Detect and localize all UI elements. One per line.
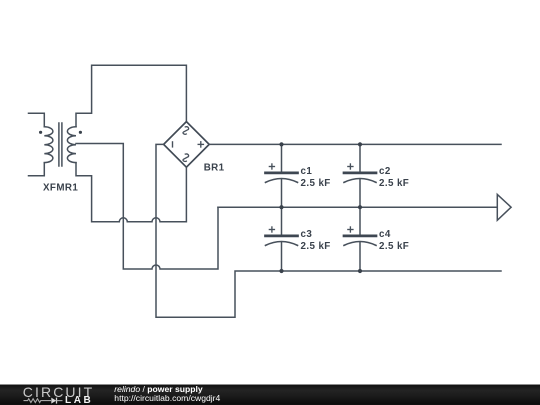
capacitor c1 bbox=[266, 144, 298, 207]
svg-text:c2: c2 bbox=[379, 166, 391, 177]
wire secondary top to bridge top vertex bbox=[76, 65, 186, 127]
wire middle rail to output arrow bbox=[218, 206, 497, 208]
BR1 ac symbol top (tilde rotated) bbox=[183, 127, 189, 135]
wire secondary bottom to bridge bottom vertex (hops over x=123.3 and x=156) bbox=[76, 163, 186, 222]
wire bridge minus vertex to bottom rail bbox=[156, 144, 501, 317]
svg-text:2.5 kF: 2.5 kF bbox=[379, 241, 409, 252]
svg-text:XFMR1: XFMR1 bbox=[43, 183, 78, 194]
svg-text:c3: c3 bbox=[301, 229, 313, 240]
wire center tap to middle rail (hop over x=156) bbox=[76, 144, 218, 270]
junction node c1/c3 middle rail bbox=[279, 205, 283, 209]
svg-text:BR1: BR1 bbox=[204, 162, 225, 173]
logo doodle diode bbox=[51, 398, 62, 404]
wire bridge plus vertex to top rail bbox=[209, 143, 501, 145]
transformer XFMR1 primary winding bbox=[29, 113, 53, 176]
svg-text:2.5 kF: 2.5 kF bbox=[301, 178, 331, 189]
footer watermark bar bbox=[0, 384, 540, 405]
svg-text:c1: c1 bbox=[301, 166, 313, 177]
junction node c2 top rail bbox=[358, 142, 362, 146]
BR1 ac symbol bottom (tilde rotated) bbox=[183, 154, 189, 162]
transformer XFMR1 polarity dot secondary bbox=[79, 131, 82, 134]
logo doodle wire + resistor zigzag bbox=[24, 399, 52, 403]
junction node c4 bottom rail bbox=[358, 269, 362, 273]
transformer XFMR1 core bbox=[59, 123, 62, 166]
svg-text:LAB: LAB bbox=[65, 395, 93, 405]
bridge rectifier BR1 body bbox=[164, 122, 210, 168]
transformer XFMR1 polarity dot primary bbox=[39, 131, 42, 134]
BR1 minus symbol (rotated, vertical bar) bbox=[172, 141, 174, 147]
junction node c3 bottom rail bbox=[279, 269, 283, 273]
BR1 plus symbol bbox=[198, 141, 205, 148]
svg-text:c4: c4 bbox=[379, 229, 391, 240]
capacitor c3 bbox=[266, 207, 298, 271]
svg-text:http://circuitlab.com/cwgdjr4: http://circuitlab.com/cwgdjr4 bbox=[114, 393, 220, 403]
junction node c1 top rail bbox=[279, 142, 283, 146]
transformer XFMR1 secondary winding bbox=[67, 127, 76, 163]
capacitor c4 bbox=[344, 207, 376, 271]
capacitor c2 bbox=[344, 144, 376, 207]
svg-text:2.5 kF: 2.5 kF bbox=[379, 178, 409, 189]
svg-text:2.5 kF: 2.5 kF bbox=[301, 241, 331, 252]
junction node c2/c4 middle rail bbox=[358, 205, 362, 209]
output arrow terminal bbox=[497, 194, 511, 220]
